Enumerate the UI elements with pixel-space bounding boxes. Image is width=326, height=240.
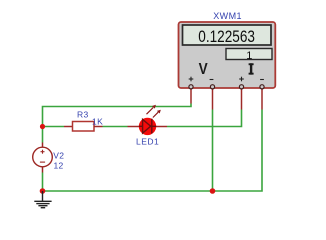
resistor R3 left red lead (64, 126, 73, 128)
wattmeter terminal V+ (189, 85, 193, 89)
svg-text:XWM1: XWM1 (213, 11, 242, 21)
V2 plus sign (41, 150, 45, 154)
wattmeter I marking (249, 63, 254, 74)
wattmeter red pin stub I- (261, 89, 263, 110)
svg-text:R3: R3 (77, 110, 89, 120)
LED1 left red lead (128, 126, 141, 128)
wattmeter I+ plus sign (239, 77, 244, 82)
svg-text:V2: V2 (53, 151, 64, 161)
wire: I+ terminal down then left to LED (167, 110, 242, 127)
wire: V2 bottom to ground junction (42, 173, 44, 192)
wire: resistor to LED (green mid-segment) (103, 126, 128, 128)
wire: I- terminal down then left along bottom rail (213, 110, 263, 192)
V2 source top red stub (42, 143, 44, 148)
svg-text:1: 1 (246, 50, 252, 62)
wattmeter red pin stub V- (212, 89, 214, 110)
V2 source circle (33, 147, 53, 167)
wattmeter V- minus sign (210, 79, 214, 81)
wattmeter I- minus sign (260, 79, 264, 81)
junction dot bottom rail V- (210, 188, 216, 194)
junction dot at left column (40, 124, 45, 129)
V2 source bottom red stub (42, 167, 44, 173)
wire: left junction to resistor (43, 126, 65, 128)
wattmeter secondary display (226, 49, 272, 60)
LED1 right red lead (155, 126, 167, 128)
wattmeter main display (183, 25, 272, 45)
svg-text:0.122563: 0.122563 (198, 27, 255, 46)
wire: top rail from wattmeter V+ down-left to left column (43, 104, 192, 127)
resistor R3 right red lead (94, 126, 103, 128)
wattmeter terminal I- (260, 85, 264, 89)
wattmeter terminal V- (210, 85, 214, 89)
wattmeter XWM1 body (179, 22, 276, 88)
wire: left junction down to V2 source (42, 127, 44, 143)
wattmeter red pin stub I+ (241, 89, 243, 110)
LED1 body circle (139, 118, 156, 135)
ground symbol (34, 191, 51, 208)
wattmeter U1 red pin stub V+ (190, 89, 192, 104)
svg-text:1K: 1K (92, 116, 103, 126)
junction dot ground (40, 188, 46, 194)
LED1 diode symbol (139, 119, 156, 134)
V2 minus sign (40, 161, 45, 163)
wattmeter terminal I+ (239, 85, 243, 89)
svg-text:LED1: LED1 (136, 137, 159, 147)
svg-text:12: 12 (54, 161, 64, 171)
LED1 emission arrow 2 (153, 110, 161, 118)
LED1 emission arrow 1 (147, 105, 156, 114)
wire: V- terminal vertical down to bottom rail (212, 110, 214, 192)
wire: bottom rail from V- junction to ground junction (43, 190, 213, 192)
wattmeter V+ plus sign (189, 77, 194, 82)
resistor R3 body (73, 122, 95, 132)
svg-text:V: V (199, 61, 208, 78)
